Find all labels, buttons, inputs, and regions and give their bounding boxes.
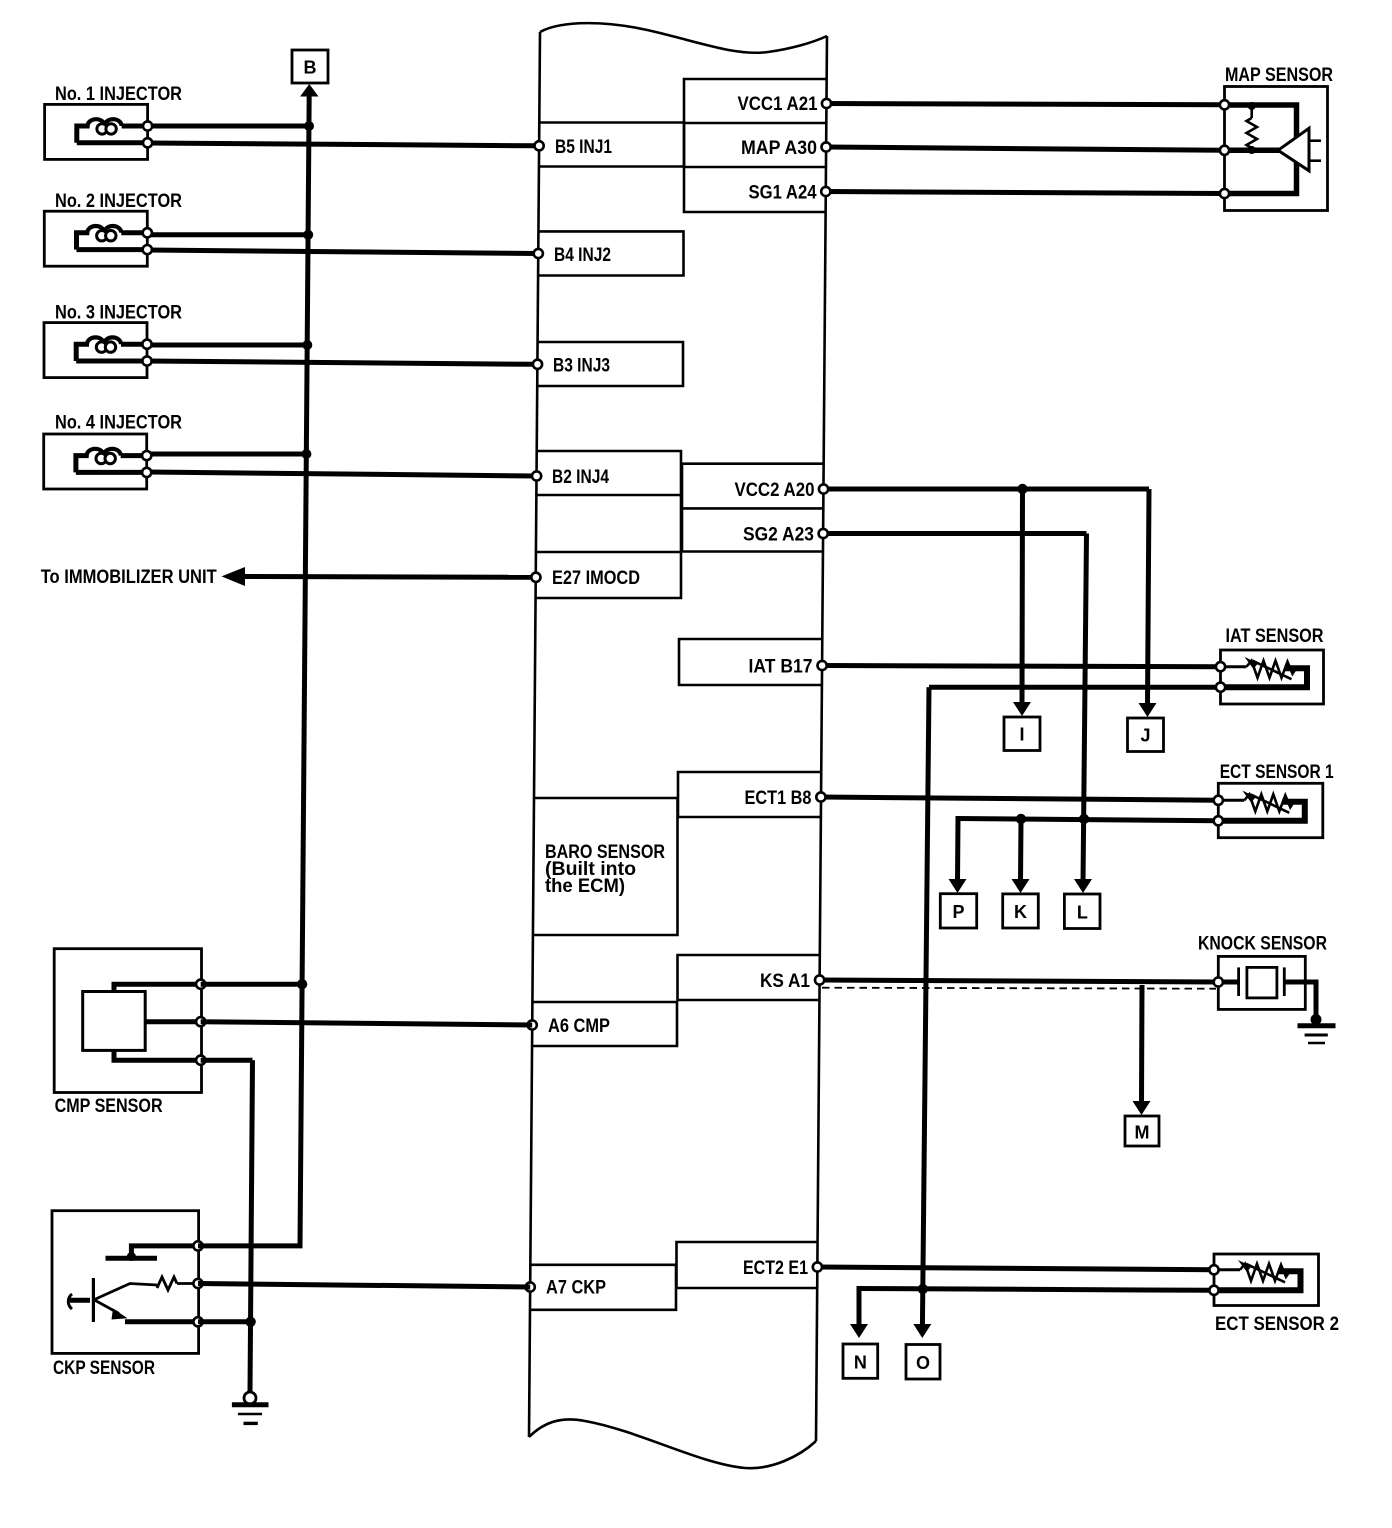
svg-text:P: P	[952, 902, 964, 922]
ECM connector box ECT2 E1	[677, 1242, 818, 1288]
wire: injector 4 top wire to B bus	[147, 452, 306, 457]
svg-text:E27 IMOCD: E27 IMOCD	[552, 568, 640, 589]
svg-text:IAT B17: IAT B17	[749, 657, 813, 678]
wire: CKP top to B bus corner	[198, 1243, 303, 1248]
junction dot B bus / injector 4	[301, 449, 311, 459]
IAT sensor assembly	[1216, 650, 1324, 704]
svg-text:L: L	[1077, 903, 1088, 923]
wire: injector 2 low side to ECM B4 INJ2	[147, 250, 536, 254]
pin terminal B5	[535, 141, 544, 150]
wire: ECT sensor 2 low side to N/O	[859, 1289, 1214, 1291]
junction dot VCC2 / I drop	[1017, 484, 1027, 494]
svg-text:N: N	[854, 1353, 867, 1373]
wire: vertical drop to J	[1148, 489, 1150, 705]
wire: CKP signal to A7 CKP	[198, 1284, 530, 1288]
svg-text:B: B	[304, 58, 317, 78]
arrowhead into L	[1074, 879, 1092, 893]
wire: injector 1 low side to ECM B5 INJ1	[148, 143, 537, 146]
svg-text:ECT SENSOR 1: ECT SENSOR 1	[1220, 762, 1334, 783]
B box	[292, 50, 328, 83]
svg-text:I: I	[1019, 725, 1024, 745]
ECT sensor 1 assembly	[1214, 783, 1323, 837]
wire: CMP power to B bus	[201, 982, 302, 987]
svg-text:KS A1: KS A1	[760, 971, 810, 992]
ECM connector box B5 INJ1	[539, 123, 684, 167]
wire: corner down to N	[859, 1289, 862, 1329]
ECM connector box A7 CKP	[530, 1265, 676, 1310]
arrowhead into N	[850, 1324, 868, 1338]
svg-text:B2 INJ4: B2 INJ4	[552, 467, 609, 488]
pin terminal A7	[526, 1282, 535, 1291]
svg-text:SG2 A23: SG2 A23	[743, 525, 814, 546]
pin terminal IAT	[818, 661, 827, 670]
svg-text:MAP SENSOR: MAP SENSOR	[1225, 65, 1333, 86]
ground symbol bottom left	[232, 1392, 269, 1423]
svg-text:the ECM): the ECM)	[545, 876, 625, 897]
pin terminal B3	[533, 360, 542, 369]
MAP sensor assembly	[1220, 87, 1328, 211]
CKP sensor assembly	[52, 1211, 203, 1354]
injector no.4	[44, 434, 152, 489]
CMP sensor assembly	[54, 949, 205, 1093]
pin terminal A6	[528, 1020, 537, 1029]
arrowhead to immobilizer	[222, 567, 246, 586]
injector no.1	[45, 104, 153, 159]
wire: ECT2 E1 to ECT sensor 2	[817, 1267, 1214, 1270]
pin terminal SG1	[821, 187, 830, 196]
wire: CKP ground to ground bus	[198, 1319, 251, 1324]
connector box O	[906, 1345, 940, 1380]
svg-text:VCC1 A21: VCC1 A21	[738, 94, 818, 115]
wire: injector 4 low side to ECM B2 INJ4	[147, 472, 535, 476]
ECM connector box A6 CMP	[532, 1002, 677, 1046]
svg-text:SG1 A24: SG1 A24	[749, 183, 817, 204]
junction dot CKP ground / ground bus	[245, 1317, 255, 1327]
svg-text:KNOCK SENSOR: KNOCK SENSOR	[1198, 934, 1327, 955]
connector box P	[940, 894, 976, 928]
svg-text:No. 3 INJECTOR: No. 3 INJECTOR	[55, 303, 182, 324]
svg-text:M: M	[1135, 1123, 1150, 1143]
pin terminal SG2	[819, 529, 828, 538]
svg-text:ECT2 E1: ECT2 E1	[743, 1258, 808, 1279]
pin terminal KS	[815, 975, 824, 984]
wire: SG1 A24 to MAP sensor	[826, 192, 1225, 194]
arrowhead into M	[1133, 1101, 1151, 1115]
pin terminal ECT2	[813, 1262, 822, 1271]
wire: SG2 vertical drop through to L	[1083, 534, 1087, 884]
svg-text:A7 CKP: A7 CKP	[546, 1278, 606, 1299]
wire: CMP signal to A6 CMP	[201, 1022, 533, 1025]
connector box J	[1128, 718, 1164, 752]
svg-text:No. 4 INJECTOR: No. 4 INJECTOR	[55, 413, 182, 434]
junction dot B bus / injector 2	[303, 230, 313, 240]
arrowhead into K	[1012, 879, 1030, 893]
svg-text:No. 2 INJECTOR: No. 2 INJECTOR	[55, 191, 182, 212]
svg-text:K: K	[1014, 902, 1027, 922]
wire: CMP ground to ground bus	[201, 1058, 253, 1063]
ground symbol at knock sensor	[1298, 1014, 1336, 1043]
arrowhead into J	[1139, 703, 1157, 717]
svg-text:No. 1 INJECTOR: No. 1 INJECTOR	[55, 84, 182, 105]
svg-text:B3 INJ3: B3 INJ3	[553, 356, 610, 377]
injector no.3	[44, 323, 152, 378]
junction dot ECT1 low / K drop	[1016, 814, 1026, 824]
pin terminal ECT1	[816, 792, 825, 801]
wire: IAT B17 to IAT sensor	[822, 666, 1220, 667]
arrowhead into P	[949, 879, 967, 893]
svg-text:MAP A30: MAP A30	[741, 138, 817, 159]
shield dashed wire KS	[822, 988, 1216, 989]
pin terminal VCC1	[822, 99, 831, 108]
knock sensor assembly	[1214, 956, 1316, 1016]
wire: KS A1 to knock sensor	[820, 980, 1219, 982]
wire: injector 1 top wire to B bus	[148, 124, 309, 129]
wire: vertical drop to K	[1018, 819, 1024, 883]
BARO sensor box (built into ECM)	[533, 798, 678, 935]
B bus vertical wire	[300, 93, 309, 1246]
svg-text:J: J	[1140, 726, 1150, 746]
wire: corner down to P	[958, 819, 961, 884]
connector box L	[1064, 894, 1100, 929]
wire: vertical drop to I	[1020, 489, 1026, 705]
arrow up into B box	[300, 84, 318, 97]
pin terminal E27	[531, 573, 540, 582]
svg-text:ECT SENSOR 2: ECT SENSOR 2	[1215, 1314, 1339, 1335]
wire: VCC1 A21 to MAP sensor	[827, 104, 1225, 105]
wire: injector 2 top wire to B bus	[147, 232, 308, 237]
junction dot ECT2 low / O drop	[918, 1284, 928, 1294]
wire: MAP A30 to MAP sensor	[826, 147, 1224, 150]
pin terminal B2	[532, 471, 541, 480]
junction dot B bus / injector 3	[302, 340, 312, 350]
svg-text:A6 CMP: A6 CMP	[548, 1016, 610, 1037]
arrowhead into O	[913, 1324, 931, 1338]
pin terminal VCC2	[819, 484, 828, 493]
connector box M	[1125, 1116, 1159, 1146]
svg-text:IAT SENSOR: IAT SENSOR	[1226, 626, 1324, 647]
ECM body torn-edge outline	[529, 23, 827, 1468]
wire: VCC2 A20 to I and J drops	[824, 487, 1150, 492]
wire: SG2 A23 to L drop	[823, 531, 1086, 536]
svg-text:O: O	[916, 1353, 930, 1373]
junction dot B bus / injector 1	[304, 121, 314, 131]
connector box K	[1003, 894, 1039, 928]
svg-text:ECT1 B8: ECT1 B8	[745, 788, 812, 809]
wire: injector 3 top wire to B bus	[147, 343, 307, 348]
wire: injector 3 low side to ECM B3 INJ3	[147, 361, 536, 364]
ECM connector stack VCC1 A21 / MAP A30 / SG1 A24	[684, 79, 827, 212]
ECM connector box B2 INJ4 with blank row and E27 IMOCD	[536, 451, 681, 598]
connector box N	[843, 1344, 878, 1378]
pin terminal MAP	[822, 142, 831, 151]
connector box I	[1004, 717, 1040, 751]
ground bus vertical	[250, 1060, 253, 1392]
svg-text:VCC2 A20: VCC2 A20	[735, 480, 815, 501]
svg-text:B4 INJ2: B4 INJ2	[554, 245, 611, 266]
wire: shield drop to M	[1139, 985, 1145, 1104]
arrowhead into I	[1013, 702, 1031, 716]
wire: E27 IMOCD to immobilizer unit	[240, 574, 536, 580]
svg-text:B5 INJ1: B5 INJ1	[555, 137, 612, 158]
svg-text:CKP SENSOR: CKP SENSOR	[53, 1358, 155, 1379]
ECM connector box B4 INJ2	[538, 231, 683, 275]
svg-text:CMP SENSOR: CMP SENSOR	[55, 1096, 163, 1117]
long vertical wire IAT low side down to O	[922, 687, 929, 1328]
pin terminal B4	[534, 249, 543, 258]
ECM connector box IAT B17	[679, 639, 822, 685]
wire: ECT1 B8 to ECT sensor 1	[821, 797, 1218, 800]
junction dot ECT1 low / L drop	[1079, 814, 1089, 824]
injector no.2	[44, 211, 152, 266]
junction dot B bus / CMP top wire	[297, 979, 307, 989]
ECM connector box KS A1	[678, 955, 820, 1000]
ECM connector box B3 INJ3	[537, 342, 683, 386]
ECT sensor 2 assembly	[1209, 1254, 1318, 1306]
wire: IAT sensor low side to O drop	[929, 685, 1221, 690]
ECM connector box ECT1 B8	[678, 772, 821, 817]
svg-text:To IMMOBILIZER UNIT: To IMMOBILIZER UNIT	[41, 567, 217, 588]
wire: ECT sensor 1 low side to P/K/L drops	[958, 819, 1218, 821]
ECM connector stack VCC2 A20 / SG2 A23	[682, 464, 824, 552]
